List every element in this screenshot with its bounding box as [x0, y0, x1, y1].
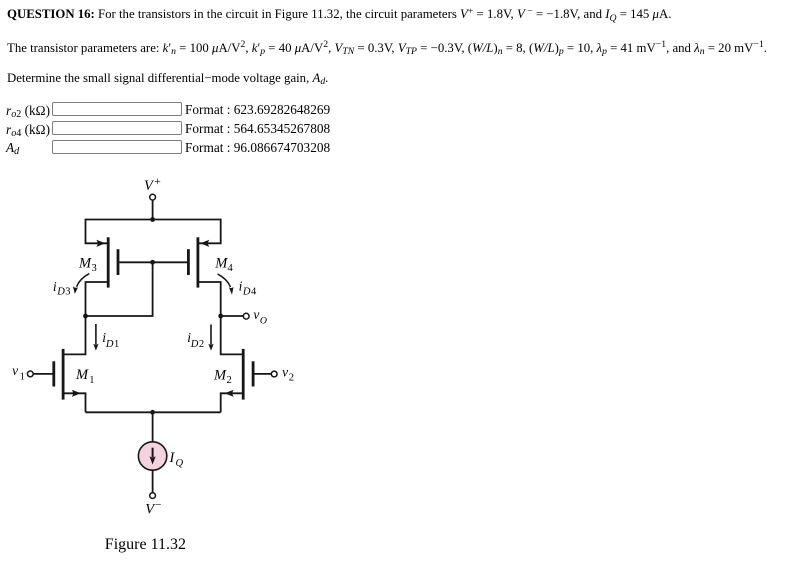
- label v1: [12, 363, 25, 382]
- wire M3 drain lead and down: [86, 282, 108, 316]
- wire tail down to current source: [152, 412, 154, 442]
- answer row 2 format: [185, 122, 330, 136]
- label V+: [144, 176, 161, 194]
- current iD1 arrow: [93, 324, 98, 351]
- label vO: [253, 307, 267, 327]
- wire left drain chain down to M1 drain: [64, 316, 85, 354]
- svg-text:D: D: [56, 287, 65, 298]
- svg-text:M: M: [213, 368, 227, 384]
- question text line 2: [7, 41, 767, 57]
- svg-text:Figure 11.32: Figure 11.32: [105, 536, 186, 553]
- svg-text:v: v: [282, 365, 288, 380]
- label iD3: [53, 279, 71, 298]
- question text line 3: [7, 71, 328, 87]
- wire right drain chain down to M2 drain: [221, 316, 242, 354]
- terminal V-: [150, 493, 156, 499]
- svg-text:D: D: [105, 339, 114, 350]
- junction dot tail node: [150, 410, 155, 415]
- transistor M1 channel bar: [62, 349, 65, 400]
- wire bottom tail rail: [86, 411, 221, 413]
- junction dot right drain node: [218, 314, 223, 319]
- current iD3 curved arrow: [73, 274, 89, 294]
- wire output to vO terminal: [221, 315, 244, 317]
- label iD2: [187, 330, 204, 350]
- M1 source arrow: [72, 390, 81, 397]
- svg-text:M: M: [214, 256, 228, 272]
- wire right rail down to M4 source: [199, 220, 221, 244]
- wire top rail: [86, 219, 221, 222]
- svg-text:2: 2: [289, 373, 294, 384]
- wire M2 gate lead: [254, 373, 271, 375]
- svg-text:v: v: [253, 307, 259, 322]
- terminal v2: [271, 371, 277, 377]
- svg-text:4: 4: [228, 263, 234, 274]
- svg-text:D: D: [190, 339, 199, 350]
- wire M2 source lead to tail: [221, 393, 242, 412]
- svg-text:I: I: [169, 450, 176, 466]
- wire diode connection from gate node down to left drain node: [86, 262, 153, 316]
- svg-text:1: 1: [20, 371, 25, 382]
- transistor M4 channel bar: [196, 237, 199, 287]
- M3 source arrow: [96, 240, 105, 247]
- wire M4 drain lead and down: [199, 282, 221, 316]
- junction dot top rail: [150, 217, 155, 222]
- svg-text:1: 1: [114, 339, 119, 350]
- wire current source to V- terminal: [152, 470, 154, 493]
- current iD4 curved arrow: [218, 274, 234, 295]
- wire gate bus M3-M4: [119, 261, 187, 263]
- terminal v1: [27, 371, 33, 377]
- svg-text:+: +: [154, 176, 161, 188]
- answer row 3 input box: [52, 140, 182, 154]
- label M1: [75, 367, 94, 386]
- svg-text:Q: Q: [176, 458, 184, 469]
- answer row 3 format: [185, 141, 330, 155]
- label IQ: [169, 450, 184, 469]
- transistor M2 gate bar: [252, 361, 255, 386]
- label V-: [145, 499, 161, 518]
- node V+ terminal wire: [152, 200, 154, 220]
- label iD1: [102, 330, 119, 350]
- transistor M3 gate bar: [117, 249, 120, 275]
- label M2: [213, 368, 232, 387]
- svg-text:D: D: [242, 286, 251, 297]
- svg-text:−: −: [155, 499, 161, 511]
- answer row 1 input box: [52, 102, 182, 116]
- label M3: [78, 256, 97, 275]
- label v2: [282, 365, 294, 384]
- svg-text:M: M: [75, 367, 89, 383]
- svg-text:4: 4: [251, 286, 257, 297]
- svg-text:M: M: [78, 256, 92, 272]
- M2 source arrow: [225, 390, 234, 397]
- answer row 1 format: [185, 103, 330, 117]
- question text line 1: [7, 7, 671, 23]
- current source IQ circle: [138, 442, 166, 470]
- svg-text:v: v: [12, 363, 18, 378]
- answer row 3 label Ad: [6, 141, 19, 157]
- label M4: [214, 256, 233, 275]
- svg-text:2: 2: [199, 339, 204, 350]
- label iD4: [239, 279, 257, 298]
- answer row 2 input box: [52, 121, 182, 135]
- svg-text:3: 3: [65, 287, 70, 298]
- answer row 1 label ro2: [6, 104, 50, 120]
- answer row 2 label ro4: [6, 123, 50, 139]
- transistor M3 channel bar: [107, 237, 110, 287]
- terminal vO: [243, 313, 249, 319]
- wire M1 source lead to tail: [64, 393, 85, 412]
- svg-text:1: 1: [89, 375, 94, 386]
- current source IQ arrow: [150, 448, 156, 465]
- junction dot gate bus: [150, 260, 155, 265]
- current iD2 arrow: [208, 325, 213, 351]
- transistor M2 channel bar: [242, 349, 245, 400]
- svg-text:O: O: [260, 316, 267, 327]
- svg-text:3: 3: [92, 263, 97, 274]
- transistor M4 gate bar: [187, 249, 190, 275]
- wire M1 gate lead: [33, 373, 52, 375]
- M4 source arrow: [200, 240, 209, 247]
- junction dot left drain node: [83, 314, 88, 319]
- wire left rail down to M3 source: [86, 220, 108, 244]
- terminal V+: [150, 194, 156, 200]
- transistor M1 gate bar: [52, 361, 55, 386]
- svg-text:2: 2: [227, 375, 232, 386]
